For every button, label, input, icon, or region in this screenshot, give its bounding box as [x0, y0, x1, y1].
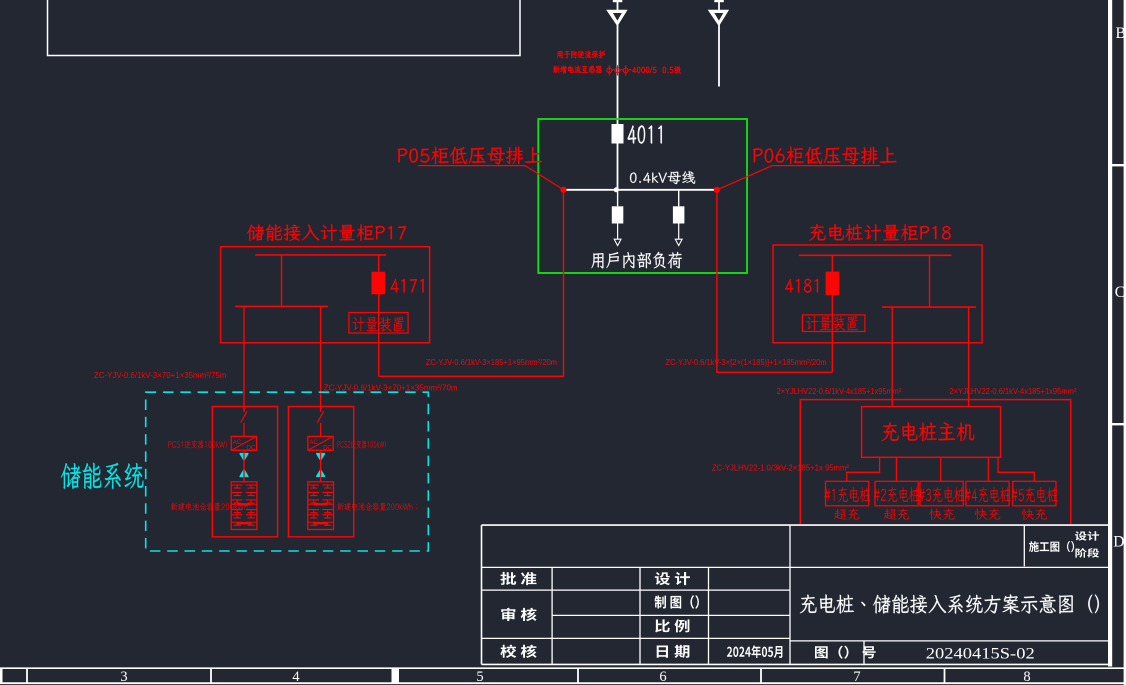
note line1: anti-backflow protection [557, 51, 605, 59]
wire host to charger 5 [998, 457, 1034, 481]
charger 1 box [826, 481, 869, 506]
P05 leader wire [525, 166, 563, 190]
wire host to charger 4 [987, 457, 989, 481]
charger 4 label [965, 487, 1011, 503]
title cell: checked [500, 645, 536, 658]
breaker 4181 label [785, 279, 818, 293]
PCS1 AC/DC converter box [231, 436, 256, 450]
legend box (cut off at top) [48, 0, 521, 56]
PCS2 switch upper contact [320, 407, 322, 412]
cabinet P17 title [247, 224, 406, 241]
charger area outer box [800, 400, 1070, 526]
PCS1 connector (cyan plug pair) [240, 454, 248, 461]
ruler tick [26, 668, 28, 683]
callout P06 busbar [753, 147, 897, 165]
PCS2 connector (cyan plug pair) [317, 454, 325, 461]
svg-text:AC: AC [309, 440, 318, 446]
CT symbol 3 [623, 68, 628, 73]
charger 2 box [875, 481, 918, 506]
charger host box [862, 407, 1001, 458]
svg-text:ZC-YJLHV22-1.0/3kV-2×185+1x 95: ZC-YJLHV22-1.0/3kV-2×185+1x 95mm² [712, 462, 849, 472]
ruler tick [210, 668, 212, 683]
PCS1 wire converter to battery [243, 450, 245, 482]
CT ratio label 4000/5 0.5 [632, 66, 681, 74]
PCS2 wire converter to battery [320, 450, 322, 482]
stage cell: construction drawing [1029, 541, 1074, 552]
zone divider tick B/C [1112, 164, 1126, 166]
svg-text:2×YJLHV22-0.6/1kV-4x185+1x95mm: 2×YJLHV22-0.6/1kV-4x185+1x95mm² [777, 386, 902, 396]
wire P06 busbar to P18 metering [717, 190, 832, 372]
ruler tick [577, 668, 579, 683]
PCS unit 2 box [288, 407, 353, 537]
feeder 1 arrow head [606, 10, 627, 27]
svg-text:8: 8 [1023, 669, 1030, 685]
title cell: reviewed [501, 608, 536, 621]
P17 top bus [255, 254, 386, 256]
svg-text:3: 3 [120, 669, 127, 685]
P06 underline [772, 165, 880, 167]
label consumer internal load [591, 252, 682, 269]
load breaker 2 (white) [673, 206, 685, 223]
svg-text:DC: DC [247, 446, 256, 452]
svg-text:6: 6 [659, 669, 666, 685]
svg-text:B: B [1116, 25, 1126, 42]
feeder 2 top bar [714, 0, 724, 2]
P17 metering device label [353, 317, 405, 332]
ruler strip top line [0, 667, 1126, 669]
svg-text:5: 5 [476, 669, 483, 685]
svg-text:7: 7 [853, 669, 860, 685]
energy storage system boundary (cyan dashed) [146, 392, 429, 551]
PCS1 rating label [168, 440, 227, 448]
feeder 1 top bar [613, 0, 623, 2]
charger 4 box [966, 481, 1009, 506]
title cell: approved [500, 572, 536, 585]
breaker 4171 (red) [372, 272, 386, 295]
P18 metering device label [806, 316, 858, 331]
busbar node (white) [614, 187, 619, 192]
load arrow 1 [614, 239, 621, 245]
charger 5 label [1012, 487, 1058, 503]
drawing title [800, 594, 1099, 613]
ruler tick [760, 668, 762, 683]
charger 3 mode label [929, 509, 954, 520]
cabinet P18 box [773, 245, 982, 343]
wire host to charger 2 [895, 457, 897, 481]
svg-text:AC: AC [233, 440, 242, 446]
svg-text:ZC-YJV-0.6/1kV-3×185+1×95mm²/2: ZC-YJV-0.6/1kV-3×185+1×95mm²/20m [426, 357, 557, 367]
svg-text:ZC-YJV-0.6/1kV-3×[2×(1×185)]+1: ZC-YJV-0.6/1kV-3×[2×(1×185)]+1×185mm²/20… [665, 357, 826, 367]
wire P18 charger drop 1 [891, 307, 893, 407]
load breaker 1 (white) [612, 206, 624, 223]
P18 top bus [799, 254, 952, 256]
PCS1 wire to converter [243, 423, 245, 437]
ruler center thick tick [392, 668, 400, 683]
PCS2 AC/DC converter box [308, 436, 333, 450]
wire P18 metering riser [831, 255, 833, 372]
sheet inner border right [1108, 0, 1112, 667]
PCS2 battery bank symbol [308, 482, 334, 530]
cabinet P18 title [809, 224, 951, 241]
P06 leader wire [717, 166, 772, 190]
cabinet P17 box [221, 247, 430, 343]
CT symbol 2 [615, 68, 620, 73]
junction node P05 (red) [560, 187, 566, 193]
P17 metering device box [349, 313, 408, 334]
CT symbol 1 [607, 68, 612, 73]
charger 5 box [1013, 481, 1056, 506]
P05 underline [418, 165, 525, 167]
breaker 4171 label [391, 279, 424, 293]
consumer boundary box (green) [538, 119, 747, 273]
PCS1 battery capacity label [171, 502, 248, 510]
title cell: date [657, 645, 690, 658]
svg-text:DC: DC [323, 446, 332, 452]
PCS1 switch upper contact [243, 407, 245, 412]
wire P17 metering riser [378, 255, 380, 376]
cell: figure number label [815, 646, 876, 659]
charger 1 label [824, 487, 870, 503]
wire P17 feeder drop 1 [243, 306, 245, 411]
charger 1 mode label [834, 509, 860, 520]
charger 4 mode label [975, 509, 1000, 520]
PCS2 switch blade [317, 411, 323, 422]
PCS1 battery bank symbol [231, 482, 257, 530]
charger 2 mode label [884, 509, 910, 520]
junction node P06 (red) [714, 187, 720, 193]
P18 lower bus [882, 306, 976, 308]
charger 3 label [919, 487, 965, 503]
svg-text:2×YJLHV22-0.6/1kV-4x185+1x95mm: 2×YJLHV22-0.6/1kV-4x185+1x95mm² [949, 386, 1076, 396]
note line2: new CT [553, 66, 602, 74]
charger 2 label [874, 487, 920, 503]
PCS2 rating label [337, 440, 386, 448]
breaker 4181 (red) [826, 272, 840, 296]
svg-text:ZC-YJV-0.6/1kV-3×70+1×35mm²/75: ZC-YJV-0.6/1kV-3×70+1×35mm²/75m [94, 370, 226, 380]
P18 metering device box [802, 315, 865, 332]
ruler tick [944, 668, 946, 683]
wire load branch 2 lower [678, 224, 680, 240]
PCS2 converter diagonal [308, 436, 333, 450]
wire P05 busbar to P17 metering [379, 190, 564, 376]
label 0.4kV busbar [630, 171, 695, 184]
wire incoming feeder 1 (to 4011) [617, 0, 619, 190]
wire host to charger 1 [847, 457, 880, 481]
wire incoming feeder 2 (stub) [718, 0, 720, 87]
ruler left edge tick [0, 668, 3, 683]
0.4kV busbar wire [563, 189, 717, 191]
wire load branch 1 [617, 190, 619, 207]
sheet outer edge right [1124, 0, 1126, 685]
breaker 4011 label [628, 125, 662, 143]
stage label line2: phase [1075, 548, 1099, 558]
P17 lower bus [235, 305, 328, 307]
title date value [727, 645, 782, 658]
charger 3 box [920, 481, 963, 506]
wire load branch 2 [678, 190, 680, 207]
PCS2 battery capacity label [337, 502, 417, 510]
feeder 2 arrow head [708, 10, 729, 27]
wire host to charger 3 [940, 457, 942, 481]
svg-text:D: D [1113, 533, 1124, 550]
svg-text:ZC-YJV-0.6/1kV-3×70+1×35mm²/70: ZC-YJV-0.6/1kV-3×70+1×35mm²/70m [324, 382, 458, 392]
ruler strip bottom line [0, 682, 1126, 684]
title cell: drawn [655, 595, 699, 608]
breaker 4011 (white) [612, 124, 624, 144]
wire P18 charger drop 2 [968, 307, 970, 407]
zone divider tick C/D [1112, 423, 1126, 425]
load arrow 2 [675, 239, 682, 245]
title cell: designed [655, 572, 690, 585]
svg-text:20240415S-02: 20240415S-02 [926, 646, 1035, 663]
stage label line1: design [1075, 531, 1099, 540]
PCS1 switch blade [241, 411, 247, 422]
title cell: scale [655, 619, 689, 632]
svg-text:4: 4 [292, 669, 300, 685]
PCS2 wire to converter [320, 423, 322, 437]
PCS1 converter diagonal [231, 436, 256, 450]
wire P17 feeder drop 2 [320, 306, 322, 411]
title block outer border [482, 525, 1112, 664]
title block grid lines [482, 525, 1112, 664]
P18 bus link [929, 255, 931, 307]
energy storage system label [61, 463, 143, 489]
charger 5 mode label [1022, 509, 1047, 520]
P17 bus link [281, 255, 283, 307]
charger host label [882, 422, 975, 441]
svg-text:C: C [1115, 284, 1125, 301]
callout P05 busbar [398, 147, 542, 165]
PCS unit 1 box [212, 407, 277, 537]
wire load branch 1 lower [617, 224, 619, 240]
